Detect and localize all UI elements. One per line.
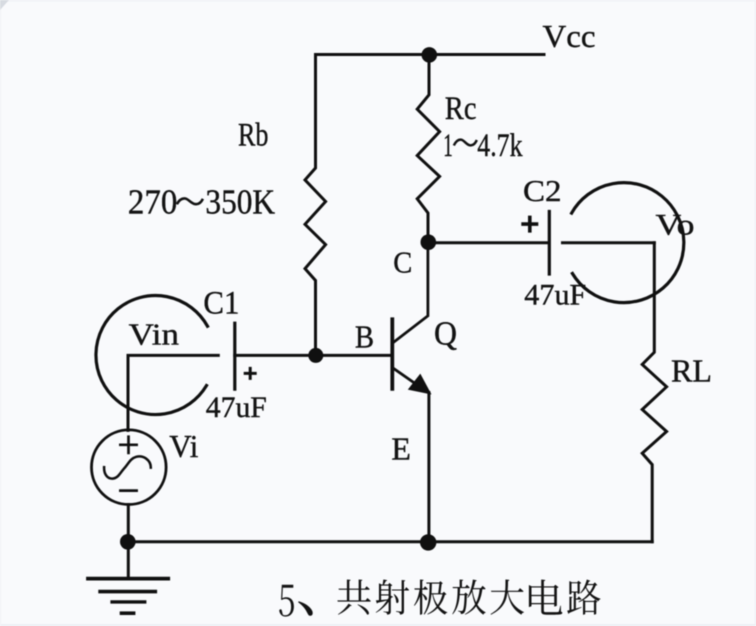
- svg-text:Vi: Vi: [169, 428, 198, 464]
- svg-text:RL: RL: [671, 353, 712, 389]
- wire base (C1 to transistor): [235, 354, 391, 357]
- polarity plus of C1: [244, 367, 257, 380]
- node C junction dot: [421, 234, 437, 250]
- faint edge remnant top: [0, 0, 756, 2]
- wire Vcc top rail: [316, 53, 545, 56]
- svg-text:Vcc: Vcc: [543, 18, 596, 54]
- transistor Q base bar: [390, 319, 394, 389]
- AC source Vi plus: [120, 437, 136, 453]
- svg-text:E: E: [391, 430, 411, 466]
- transistor Q collector stroke: [394, 242, 428, 342]
- AC source Vi circle: [92, 430, 167, 505]
- svg-text:270: 270: [128, 182, 177, 221]
- wire collector node to C2: [428, 241, 548, 244]
- resistor RL: [642, 243, 666, 542]
- transistor Q emitter arrow: [408, 374, 432, 395]
- wire Vi to ground node: [127, 505, 130, 579]
- svg-text:C2: C2: [523, 173, 562, 208]
- svg-text:47uF: 47uF: [206, 391, 267, 424]
- svg-text:B: B: [355, 319, 374, 355]
- resistor Rc: [417, 55, 439, 243]
- svg-text:47uF: 47uF: [524, 279, 586, 312]
- node Vcc junction dot: [422, 47, 438, 63]
- svg-text:Vin: Vin: [129, 317, 180, 352]
- wire C2 to RL corner: [563, 241, 655, 244]
- capacitor C1 plate: [233, 323, 236, 389]
- svg-text:4.7k: 4.7k: [477, 128, 523, 164]
- capacitor C2 plate: [548, 212, 551, 275]
- output circle Vo (open left): [572, 183, 684, 303]
- source circle Vin (open right): [96, 296, 208, 415]
- svg-text:Vo: Vo: [656, 209, 695, 242]
- wire bottom rail: [128, 540, 652, 543]
- faint edge remnant left: [0, 0, 2, 626]
- svg-text:Q: Q: [434, 316, 457, 353]
- title 5、共射极放大电路: [279, 579, 600, 616]
- AC source Vi sine: [104, 456, 151, 478]
- transistor Q emitter stroke: [394, 368, 429, 393]
- faint edge remnant right: [754, 0, 756, 626]
- faint corner smudge top-left: [0, 0, 9, 10]
- svg-text:1: 1: [443, 128, 453, 164]
- wire emitter vertical: [427, 393, 430, 542]
- AC source Vi minus: [120, 489, 136, 492]
- resistor Rb: [305, 55, 326, 356]
- wire Vin L (to C1 and down to Vi): [128, 355, 218, 430]
- svg-text:C: C: [393, 244, 412, 279]
- svg-text:350K: 350K: [205, 182, 275, 221]
- svg-text:Rc: Rc: [445, 91, 477, 127]
- node ground junction dot: [120, 534, 136, 550]
- svg-text:Rb: Rb: [238, 118, 269, 154]
- polarity plus of C2: [521, 216, 538, 233]
- svg-text:C1: C1: [203, 286, 239, 322]
- node E junction dot: [420, 534, 436, 550]
- faint edge remnant bottom: [0, 624, 756, 626]
- node B junction dot: [308, 348, 323, 363]
- ground: [88, 577, 168, 581]
